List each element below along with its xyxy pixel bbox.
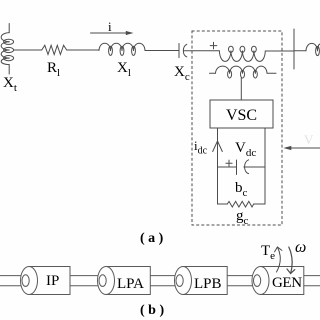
speed arrow w (cw arc)	[287, 247, 295, 274]
label Rl	[47, 60, 60, 79]
shaft segment LPA-LPB	[150, 276, 183, 286]
label IP	[46, 273, 59, 290]
torque arrow Te (ccw arc)	[275, 247, 282, 272]
turbine mass LPB cylinder	[175, 267, 228, 295]
wire from Rl to Xl	[67, 49, 99, 51]
dc-side left conductor	[217, 128, 219, 204]
label LPB	[194, 276, 222, 293]
plus sign at transformer input	[210, 42, 217, 49]
label gc	[236, 208, 248, 227]
bottom right corner wire	[254, 203, 265, 205]
label omega	[295, 239, 306, 257]
wire from Xl to Xc	[145, 50, 179, 52]
wire from Xc into dashed box to transformer	[183, 50, 219, 52]
shaft segment IP-LPA	[70, 276, 106, 286]
generator mass GEN cylinder	[252, 267, 304, 295]
system inductor at right edge (cut off)	[306, 43, 320, 55]
capacitor Xc	[179, 44, 187, 58]
plus sign at dc capacitor	[226, 160, 232, 166]
turbine mass IP cylinder	[21, 267, 71, 295]
transformer winding Xt (source coil, left edge)	[1, 24, 13, 75]
label VSC	[210, 107, 273, 125]
label i (current)	[108, 19, 112, 35]
idc arrowhead (open, up)	[213, 141, 223, 152]
inductor Xl	[99, 43, 145, 55]
label bc	[235, 180, 247, 199]
shaft segment entering IP	[0, 276, 29, 286]
dashed boundary box of SSSC	[192, 31, 282, 225]
resistor gc	[227, 201, 253, 207]
label LPA	[117, 276, 144, 293]
VSC box U1	[210, 100, 273, 128]
transformer secondary winding (VSC side, arcs up)	[210, 66, 277, 78]
transformer primary winding (line side, arcs down)	[219, 46, 265, 61]
shaft segment LPB-GEN	[227, 276, 260, 286]
label Te	[261, 243, 275, 262]
label Vdc	[235, 140, 256, 159]
wire from bus to right system inductor	[294, 50, 306, 52]
dc capacitor bc	[237, 160, 249, 175]
caption ( a )	[140, 231, 163, 247]
bottom left corner wire	[218, 203, 228, 205]
wire left line to capacitor plate	[218, 166, 237, 168]
wire from Xt to Rl	[14, 49, 42, 51]
resistor Rl	[42, 45, 67, 54]
wire from capacitor to right conductor	[244, 166, 265, 168]
label Xc	[174, 64, 190, 83]
label GEN	[272, 275, 302, 292]
dc-side right conductor	[264, 128, 266, 204]
shaft segment leaving GEN	[304, 276, 320, 286]
current arrow i	[91, 31, 134, 35]
turbine mass LPA cylinder	[98, 267, 151, 295]
caption ( b )	[140, 303, 164, 319]
label Xl	[117, 60, 131, 79]
control input arrow into SSSC	[283, 146, 320, 150]
wire from transformer to bus	[265, 50, 294, 52]
label Xt	[3, 75, 17, 94]
wire from secondary winding to VSC	[240, 78, 242, 100]
faint V artifact	[304, 132, 313, 148]
label idc	[194, 138, 207, 157]
bus bar (vertical line)	[293, 29, 295, 69]
